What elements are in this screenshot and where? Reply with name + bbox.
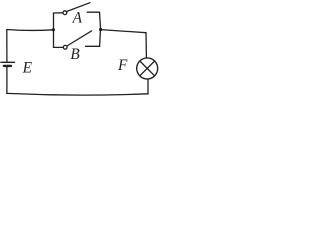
svg-text:E: E bbox=[22, 59, 33, 76]
node junction right bbox=[99, 28, 102, 31]
switch A fixed contact bbox=[87, 11, 99, 13]
switch A lever (open) bbox=[67, 3, 90, 12]
svg-text:F: F bbox=[117, 57, 128, 74]
wire left vertical (top section) bbox=[6, 30, 8, 62]
switch A bbox=[54, 3, 101, 30]
switch B pivot terminal bbox=[63, 45, 67, 49]
lamp F cross stroke 2 bbox=[140, 61, 155, 76]
svg-text:B: B bbox=[70, 46, 80, 63]
wire top-right horizontal bbox=[101, 30, 146, 33]
lamp F cross stroke 1 bbox=[140, 61, 155, 76]
lamp F bulb circle bbox=[137, 58, 158, 79]
wire top-left horizontal bbox=[7, 29, 54, 32]
switch A pivot terminal bbox=[63, 11, 67, 15]
battery E short plate (negative) bbox=[4, 65, 11, 67]
wire riser from left node to switch A bbox=[53, 13, 55, 30]
wire stub to switch A pivot bbox=[54, 12, 64, 14]
wire drop from left node to switch B bbox=[53, 30, 55, 48]
battery E long plate (positive) bbox=[1, 61, 15, 63]
switch B lever (open) bbox=[67, 31, 92, 46]
wire stub to switch B pivot bbox=[54, 46, 64, 48]
switch B fixed contact bbox=[86, 45, 100, 47]
lamp F bbox=[137, 58, 158, 79]
wire right vertical (above lamp) bbox=[145, 33, 147, 58]
switch B bbox=[54, 30, 101, 49]
wire right vertical (below lamp) bbox=[147, 79, 149, 94]
node junction left bbox=[52, 28, 55, 31]
wire from switch A contact down to right node bbox=[100, 12, 101, 29]
battery E bbox=[1, 62, 15, 66]
svg-text:A: A bbox=[72, 10, 83, 27]
wire left vertical (bottom section) bbox=[6, 67, 8, 94]
wire from switch B contact up to right node bbox=[99, 30, 102, 47]
wire bottom bbox=[7, 93, 148, 95]
